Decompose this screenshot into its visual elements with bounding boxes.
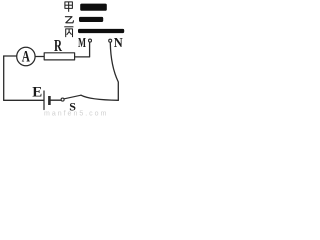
wire battery to switch — [51, 99, 61, 101]
wire left vertical — [3, 56, 5, 100]
wire sample 乙 bar — [79, 17, 103, 22]
wire sample 甲 bar — [80, 4, 107, 11]
svg-text:manfen5.com: manfen5.com — [44, 111, 108, 117]
wire switch to bottom-right corner — [81, 95, 118, 100]
svg-text:A: A — [22, 48, 31, 65]
ammeter A1 — [17, 47, 35, 65]
terminal M (binding post) — [89, 39, 92, 42]
label 丙 (wire sample bing) — [64, 27, 73, 37]
wire sample 丙 bar — [78, 29, 124, 33]
svg-text:N: N — [114, 35, 123, 50]
wire resistor to terminal M — [75, 43, 89, 57]
terminal N (binding post) — [109, 39, 112, 42]
wire bottom-left to battery — [4, 99, 44, 101]
battery E (short thick plate) — [48, 96, 51, 105]
wire top-left horizontal — [4, 55, 17, 57]
svg-text:E: E — [32, 84, 42, 100]
svg-text:R: R — [54, 36, 63, 55]
wire terminal N down to bottom-right corner — [110, 43, 118, 101]
label 乙 (wire sample yi) — [65, 17, 73, 23]
switch S pivot — [61, 98, 64, 101]
switch S lever — [64, 95, 81, 99]
label 甲 (wire sample jia) — [65, 2, 73, 12]
svg-text:M: M — [78, 35, 86, 50]
battery E (long plate) — [43, 91, 45, 110]
resistor R (box) — [44, 53, 74, 60]
wire ammeter to resistor — [35, 56, 44, 58]
